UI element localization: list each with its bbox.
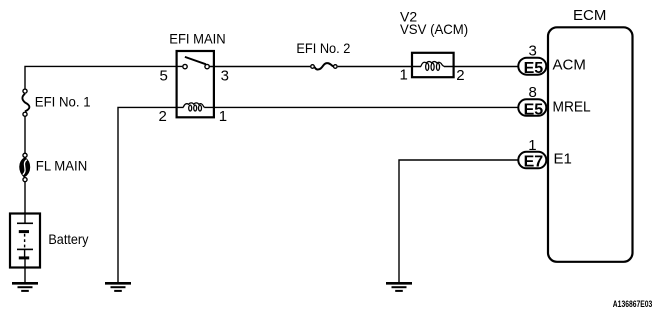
svg-text:2: 2 xyxy=(456,67,464,84)
wire: relay pin 3 to fuse EFI No. 2 xyxy=(209,66,310,68)
VSV solenoid coil xyxy=(421,62,444,71)
wire: relay pin 2 to ground xyxy=(118,107,183,282)
fuse EFI No. 2 xyxy=(311,63,337,69)
svg-text:A136867E03: A136867E03 xyxy=(613,299,653,309)
ground (battery) xyxy=(12,283,38,291)
svg-text:ACM: ACM xyxy=(553,56,586,73)
svg-text:VSV (ACM): VSV (ACM) xyxy=(400,21,468,37)
wire: FL MAIN to battery xyxy=(24,182,26,223)
svg-text:EFI No. 1: EFI No. 1 xyxy=(35,94,91,110)
svg-text:E1: E1 xyxy=(554,151,572,168)
svg-text:3: 3 xyxy=(221,67,229,84)
svg-text:3: 3 xyxy=(529,43,537,60)
wire: relay pin 1 to ECM MREL xyxy=(204,106,518,108)
svg-text:E7: E7 xyxy=(524,153,544,170)
ground (relay pin 2) xyxy=(105,283,131,291)
relay contact pin 5 terminal xyxy=(183,64,187,68)
svg-text:8: 8 xyxy=(529,84,537,101)
ground (ECM E1) xyxy=(386,283,412,291)
svg-text:E5: E5 xyxy=(524,60,544,77)
connector E5 pin 8 (MREL) xyxy=(518,99,546,118)
svg-text:MREL: MREL xyxy=(553,99,591,116)
connector E7 pin 1 (E1) xyxy=(518,152,546,171)
battery xyxy=(10,214,40,268)
wire: VSV to ECM ACM xyxy=(444,66,519,68)
fuse EFI No. 1 xyxy=(22,89,29,116)
svg-text:5: 5 xyxy=(160,67,168,84)
svg-text:E5: E5 xyxy=(524,101,544,118)
svg-text:EFI MAIN: EFI MAIN xyxy=(169,30,225,46)
relay contact pin 3 terminal xyxy=(205,64,209,68)
ECM box xyxy=(548,27,633,261)
svg-text:ECM: ECM xyxy=(573,7,606,24)
relay coil xyxy=(183,103,204,111)
svg-text:1: 1 xyxy=(528,137,536,154)
svg-text:FL MAIN: FL MAIN xyxy=(36,158,87,174)
fusible link FL MAIN xyxy=(20,153,30,181)
svg-text:Battery: Battery xyxy=(48,231,88,247)
relay switch blade xyxy=(185,57,206,64)
connector E5 pin 3 (ACM) xyxy=(518,58,546,77)
svg-text:1: 1 xyxy=(400,67,408,84)
wire: battery to ground xyxy=(24,259,26,282)
svg-text:1: 1 xyxy=(219,108,227,125)
svg-text:EFI No. 2: EFI No. 2 xyxy=(296,40,350,56)
relay EFI MAIN box xyxy=(177,51,214,117)
wire: fuse EFI No.1 to FL MAIN xyxy=(24,116,26,153)
svg-text:2: 2 xyxy=(159,108,167,125)
wire: ECM E1 to ground xyxy=(399,160,519,282)
VSV V2 box xyxy=(412,53,454,77)
wire: fuse EFI No. 2 to VSV xyxy=(338,66,421,68)
wire: battery feed to relay pin 5 (left vertical + top horizontal) xyxy=(25,66,182,89)
